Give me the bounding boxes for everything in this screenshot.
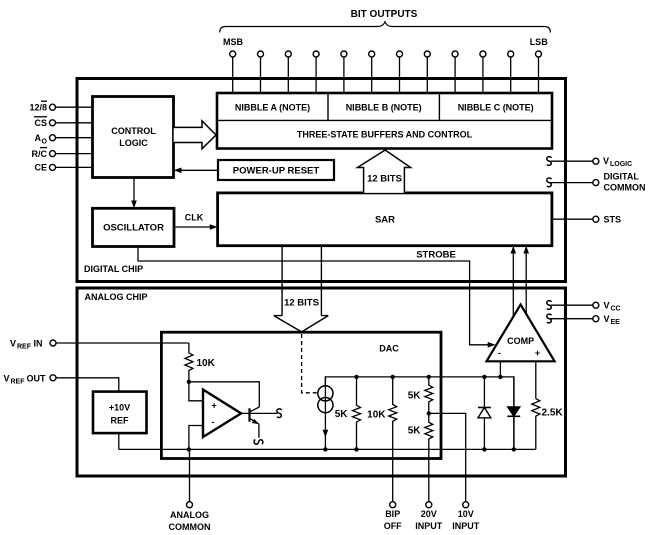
resistor 5K lower of divider [408,413,433,504]
svg-text:V: V [604,314,610,324]
svg-text:ANALOG CHIP: ANALOG CHIP [85,292,148,302]
digital chip outer frame [77,79,566,282]
resistor 5K upper of divider [408,377,433,414]
DAC box [161,332,441,458]
resistor 2.5K [532,399,564,450]
svg-text:20V: 20V [421,509,437,519]
svg-text:REF: REF [11,378,26,385]
node 5K top junction [354,375,358,379]
wire VEE with squiggle [547,314,620,326]
svg-text:COMP: COMP [507,336,534,346]
svg-text:V: V [4,373,10,383]
svg-text:A: A [35,133,42,143]
node diode D1 bottom junction [482,447,486,451]
wire to op-amp + input [189,382,203,401]
node divider top junction [427,375,431,379]
terminal ANALOG COMMON [169,502,211,532]
resistor 10K middle [367,377,397,505]
terminal BIP OFF [384,502,402,531]
diode D2 [507,377,520,450]
input terminal A0 [35,133,93,146]
node diode D2 bottom junction [512,447,516,451]
svg-text:5K: 5K [408,426,422,437]
wire power-up reset to control logic with arrowhead [174,168,218,174]
terminal 10V INPUT [452,502,480,531]
node 5K bottom junction [354,447,358,451]
input terminal R/C [32,148,93,159]
hollow arrow control logic to buffers [174,121,216,149]
resistor 5K left [335,377,361,450]
svg-text:CC: CC [611,306,621,313]
terminal VREF IN [10,339,189,351]
wire CLK oscillator to SAR with arrowhead [174,213,218,230]
comparator output wires up into SAR with arrowheads [511,246,530,317]
input terminal 12/8 [29,101,92,112]
svg-text:EE: EE [611,319,621,326]
svg-text:LOGIC: LOGIC [119,138,148,148]
transistor [241,407,277,438]
svg-text:O: O [42,139,48,146]
svg-text:2.5K: 2.5K [542,408,564,419]
svg-text:12 BITS: 12 BITS [367,174,402,185]
svg-text:12/8: 12/8 [29,103,47,113]
svg-text:+10V: +10V [109,403,130,413]
terminal VREF OUT [4,373,119,391]
svg-text:CS: CS [34,118,47,128]
svg-text:LOGIC: LOGIC [610,161,632,168]
dashed wire from 12-bit arrow to current source [302,334,318,393]
svg-text:+: + [535,348,540,358]
svg-text:STROBE: STROBE [416,250,456,261]
input terminal CE [34,163,92,173]
top rail node [325,377,514,450]
svg-text:CLK: CLK [185,213,204,223]
bottom rail node analog common [119,448,536,450]
wire VCC with squiggle [547,301,621,313]
svg-text:R/C: R/C [32,149,48,159]
node 10K top junction [391,375,395,379]
svg-text:NIBBLE B (NOTE): NIBBLE B (NOTE) [346,103,422,113]
svg-text:BIP: BIP [385,509,400,519]
svg-text:10K: 10K [367,410,386,421]
svg-text:REF: REF [17,344,32,351]
squiggle on transistor base line [277,409,282,418]
wire STS [552,215,621,225]
SAR box [218,193,552,246]
svg-text:COMMON: COMMON [604,183,646,193]
svg-text:THREE-STATE BUFFERS AND CONTRO: THREE-STATE BUFFERS AND CONTROL [297,130,473,140]
bit output terminals and wires [230,51,542,93]
nibble and three-state buffers box [217,93,552,149]
current source [318,377,333,450]
wire +10V REF to common rail [118,433,120,449]
op-amp buffer [203,390,241,437]
wire control logic to oscillator with arrowhead [131,178,137,209]
svg-text:NIBBLE C (NOTE): NIBBLE C (NOTE) [458,103,534,113]
svg-text:INPUT: INPUT [415,521,443,531]
wire comp plus stub to 2.5K [535,361,537,398]
svg-text:MSB: MSB [223,37,244,47]
wire feedback to transistor collector [189,382,259,407]
analog chip outer frame [77,288,566,476]
svg-text:10K: 10K [197,358,216,369]
svg-text:V: V [10,339,16,349]
node diode D1 top junction [482,375,486,379]
svg-text:+: + [212,401,217,411]
node current source bottom [323,447,327,451]
brace over bit outputs [220,22,551,33]
wire VLOGIC with squiggle [547,156,632,168]
svg-text:-: - [212,417,215,427]
svg-text:DIGITAL CHIP: DIGITAL CHIP [84,264,143,274]
svg-text:REF: REF [111,416,130,426]
svg-text:OFF: OFF [384,521,402,531]
svg-text:V: V [603,156,609,166]
svg-text:STS: STS [604,215,622,225]
node analog common junction [187,447,191,451]
input terminal CS [34,117,93,128]
svg-text:DIGITAL: DIGITAL [604,172,640,182]
svg-text:OUT: OUT [27,373,47,383]
wire midpoint to 10V input [429,413,466,504]
12 bits up arrow SAR to buffers [358,150,411,193]
node divider midpoint [427,411,431,415]
node reference junction [187,380,191,384]
svg-text:5K: 5K [335,409,349,420]
wire DIGITAL COMMON with squiggle [547,172,646,193]
svg-text:OSCILLATOR: OSCILLATOR [103,223,164,234]
svg-text:V: V [604,301,610,311]
svg-text:IN: IN [34,339,43,349]
squiggle on emitter line [254,440,263,445]
svg-text:10V: 10V [458,509,474,519]
svg-text:BIT OUTPUTS: BIT OUTPUTS [351,9,418,20]
svg-text:ANALOG: ANALOG [170,510,209,520]
resistor 10K (reference) [185,343,216,382]
svg-text:CONTROL: CONTROL [111,126,156,136]
comparator COMP [487,305,555,362]
svg-text:COMMON: COMMON [169,522,211,532]
svg-text:DAC: DAC [379,344,399,354]
12 bits down arrow SAR to DAC [274,246,329,332]
svg-text:CE: CE [34,163,47,173]
node comparator minus junction [498,375,502,379]
terminal 20V INPUT [415,502,443,531]
oscillator box [93,208,175,246]
control logic box [93,97,174,178]
svg-text:NIBBLE A (NOTE): NIBBLE A (NOTE) [235,103,310,113]
strobe wire from oscillator to comp with arrowhead [138,247,496,348]
svg-text:-: - [498,348,501,358]
wire to op-amp - input [189,426,203,450]
+10V REF box [93,392,147,434]
svg-text:12 BITS: 12 BITS [284,298,319,309]
svg-text:POWER-UP RESET: POWER-UP RESET [233,166,320,177]
diode D1 [478,377,491,450]
svg-text:SAR: SAR [375,215,395,226]
power-up reset box [218,160,334,180]
svg-text:5K: 5K [408,391,422,402]
svg-text:INPUT: INPUT [452,521,480,531]
svg-text:LSB: LSB [530,37,549,47]
wire to analog common terminal [189,449,191,501]
wire comp minus stub [499,361,501,377]
